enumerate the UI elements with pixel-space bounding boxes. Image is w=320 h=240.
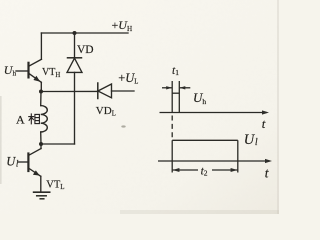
node winding-bottom junction [39, 142, 43, 146]
pulse Ul left edge [171, 140, 173, 172]
wire bottom link [41, 143, 75, 145]
node rail junction dot [73, 31, 77, 35]
wire VD branch upper [74, 33, 76, 58]
wire collector VT_H vertical [40, 33, 42, 59]
dimension t2 line left [173, 169, 198, 171]
transistor VT_H [16, 59, 41, 82]
wire top +UH rail [41, 32, 128, 34]
pulse Uh right edge [178, 81, 180, 113]
svg-text:t: t [262, 116, 266, 131]
pulse Uh left edge [171, 81, 173, 113]
svg-text:A: A [16, 113, 25, 127]
wire VD_L horizontal left [41, 90, 98, 92]
transistor VT_L [18, 144, 41, 176]
ground [34, 192, 50, 199]
pulse Ul top [172, 139, 238, 141]
wire VD branch lower [74, 72, 76, 144]
diode VD [67, 58, 82, 73]
wire VD_L to +UL [112, 90, 135, 92]
pulse Ul right edge [237, 140, 239, 172]
diode VD_L [98, 83, 112, 99]
dimension t1 left arrow [162, 87, 172, 89]
axis t (upper) [160, 112, 267, 114]
dimension t1 right arrow [180, 87, 191, 89]
dashed sync line [171, 116, 173, 140]
glyph 相 hand-drawn [28, 113, 39, 124]
wire emitter VT_L to ground [40, 176, 42, 191]
node winding-top junction [39, 90, 43, 94]
dimension t2 line right [212, 169, 237, 171]
wire emitter VT_H down [40, 82, 42, 91]
inductor A-phase winding [41, 92, 48, 145]
pulse Uh top [172, 92, 179, 94]
axis t (lower) [158, 160, 270, 162]
svg-text:VD: VD [77, 44, 94, 56]
